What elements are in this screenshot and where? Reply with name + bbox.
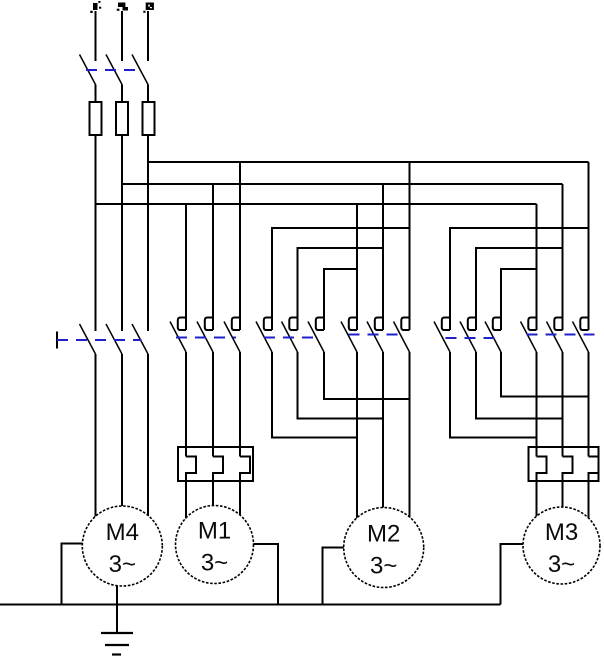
supply arrow symbol L2 <box>117 3 128 11</box>
contactor K2R pole 1 contact <box>341 318 357 353</box>
supply arrow symbol L3 <box>143 3 154 13</box>
wire fuse F2 to bus B and M4 pole2 <box>121 135 123 331</box>
contactor K3R pole 2 contact <box>547 318 563 353</box>
wire crossover to K3F pole1 <box>450 228 589 330</box>
wire K2R pole1 to motor M2 <box>356 352 358 522</box>
wire switch to fuse F3 <box>147 85 149 103</box>
wire M2 frame to ground bus <box>323 548 351 605</box>
motor M3 circle <box>523 507 600 584</box>
wire drop bus B to K3R pole2 <box>562 184 564 330</box>
wire crossover to K3F pole3 <box>501 269 537 330</box>
wire crossover to K2F pole2 <box>298 248 384 330</box>
ground bus <box>0 604 501 606</box>
overload relay F4 heater 3 <box>240 457 250 519</box>
wire drop bus C to K3R pole1 <box>536 204 538 330</box>
wire M4 frame to ground bus <box>62 544 91 605</box>
wire K1 pole2 to overload F4 <box>212 352 214 457</box>
fuse F1 <box>90 102 102 135</box>
wire crossover to K2F pole3 <box>324 269 357 330</box>
contactor K3F pole 2 contact <box>460 318 476 353</box>
wire drop bus C to K1 pole1 <box>185 204 187 330</box>
wire K2F pole2 output <box>298 352 384 419</box>
wire K3R pole2 to overload F5 <box>562 352 564 457</box>
motor M4 circle <box>82 506 162 586</box>
fuse F2 <box>116 102 128 135</box>
disconnect switch Q0 pole 1 blade <box>80 55 96 85</box>
wire drop bus B to K2R pole2 <box>382 184 384 330</box>
contactor K1 pole 1 contact <box>170 318 186 353</box>
contactor K2F pole 2 contact <box>282 318 298 353</box>
supply arrow symbol L1 <box>90 1 101 13</box>
contactor K2R linkage (blue dashed) <box>349 334 406 336</box>
wire K1 pole1 to overload F4 <box>185 352 187 457</box>
wire switch to fuse F1 <box>95 85 97 103</box>
wire L2 drop to switch <box>121 11 123 61</box>
contactor K1 pole 2 contact <box>197 318 213 353</box>
wire fuse F1 to bus C and M4 pole1 <box>95 135 97 331</box>
overload relay F5 body <box>529 447 599 481</box>
wire drop bus A to K3R pole3 <box>588 162 590 330</box>
switch Q4 pole 1 blade <box>80 324 96 354</box>
bus A (phase L3) <box>148 161 589 163</box>
svg-text:M3: M3 <box>545 519 578 546</box>
wire Q4 pole3 to motor M4 <box>147 354 149 519</box>
wire K2R pole3 to motor M2 <box>409 352 411 520</box>
wire K3F pole2 output <box>476 352 563 419</box>
disconnect switch Q0 pole 3 blade <box>132 55 148 85</box>
contactor K2F linkage (blue dashed) <box>264 337 320 339</box>
switch Q4 pole 3 blade <box>132 324 148 354</box>
contactor K2R pole 2 contact <box>367 318 383 353</box>
switch Q4 pole 2 blade <box>106 324 122 354</box>
wire L3 drop to switch <box>147 11 149 61</box>
wire L1 drop to switch <box>95 11 97 61</box>
wire Q4 pole2 to motor M4 <box>121 354 123 510</box>
wire drop bus A to K2R pole3 <box>409 162 411 330</box>
wire K1 pole3 to overload F4 <box>239 352 241 457</box>
wire K3R pole1 to overload F5 <box>536 352 538 457</box>
overload relay F4 heater 2 <box>213 457 223 511</box>
wire switch to fuse F2 <box>121 85 123 103</box>
wire K2R pole2 to motor M2 <box>382 352 384 511</box>
overload relay F4 body <box>178 447 253 481</box>
switch Q4 linkage (blue dashed) <box>57 339 142 341</box>
overload relay F5 heater 1 <box>537 457 547 522</box>
svg-text:3~: 3~ <box>201 550 228 577</box>
wire K2F pole1 output <box>272 352 357 438</box>
contactor K3R pole 3 contact <box>573 318 589 353</box>
fuse F3 <box>143 102 155 135</box>
contactor K3F linkage (blue dashed) <box>446 337 502 339</box>
wire K3R pole3 to overload F5 <box>588 352 590 457</box>
wire K3F pole3 output <box>501 352 589 397</box>
contactor K2F pole 3 contact <box>308 318 324 353</box>
wire crossover to K3F pole2 <box>476 248 563 330</box>
wire fuse F3 to bus A and M4 pole3 <box>147 135 149 331</box>
switch Q4 actuator bar <box>56 332 58 349</box>
wire drop bus C to K2R pole1 <box>356 204 358 330</box>
overload relay F4 heater 1 <box>186 457 196 524</box>
contactor K3F pole 1 contact <box>434 318 450 353</box>
disconnect switch Q0 linkage (blue dashed) <box>86 69 142 71</box>
svg-text:3~: 3~ <box>370 553 397 580</box>
contactor K3R linkage (blue dashed) <box>527 334 596 336</box>
wire M4 to earth stem <box>116 580 118 633</box>
contactor K2F pole 1 contact <box>256 318 272 353</box>
contactor K3R pole 1 contact <box>521 318 537 353</box>
contactor K3F pole 3 contact <box>485 318 501 353</box>
contactor K1 linkage (blue dashed) <box>176 337 236 339</box>
bus C (phase L1) <box>96 203 537 205</box>
svg-text:M2: M2 <box>367 521 400 548</box>
svg-text:3~: 3~ <box>548 551 575 578</box>
svg-text:3~: 3~ <box>109 551 136 578</box>
wire K3F pole1 output <box>450 352 537 438</box>
wire M3 frame to ground bus <box>501 544 528 605</box>
svg-text:M4: M4 <box>106 519 139 546</box>
wire crossover to K2F pole1 <box>272 228 410 330</box>
bus B (phase L2) <box>122 183 563 185</box>
svg-text:M1: M1 <box>198 518 231 545</box>
wire M1 frame to ground bus <box>248 544 278 605</box>
wire Q4 pole1 to motor M4 <box>95 354 97 520</box>
wire drop bus B to K1 pole2 <box>212 184 214 330</box>
motor M2 circle <box>344 508 424 588</box>
earth ground symbol <box>101 633 133 655</box>
overload relay F5 heater 3 <box>589 457 599 527</box>
wire K2F pole3 output <box>324 352 410 399</box>
disconnect switch Q0 pole 2 blade <box>106 55 122 85</box>
wire drop bus A to K1 pole3 <box>239 162 241 330</box>
contactor K1 pole 3 contact <box>224 318 240 353</box>
overload relay F5 heater 2 <box>563 457 573 513</box>
motor M1 circle <box>176 506 254 584</box>
contactor K2R pole 3 contact <box>394 318 410 353</box>
